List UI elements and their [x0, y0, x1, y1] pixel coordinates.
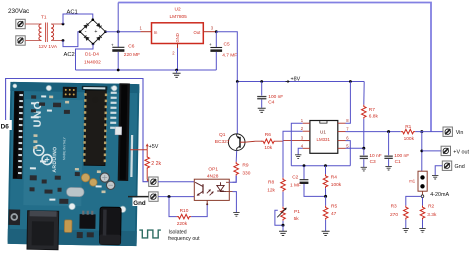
wire pin7 to R1 row — [346, 131, 401, 133]
svg-text:100 nF: 100 nF — [394, 153, 409, 159]
wire U2 output to +8V drop — [216, 32, 237, 82]
node R4/R5/C2 junction — [324, 195, 327, 198]
terminal J2 (230Vac neutral) — [16, 36, 25, 45]
svg-text:100k: 100k — [404, 136, 415, 142]
svg-text:MADE IN ITALY: MADE IN ITALY — [62, 136, 66, 159]
svg-text:-: - — [85, 29, 87, 35]
pin 7 stub — [338, 131, 346, 133]
svg-text:270: 270 — [390, 212, 398, 218]
wire pin5 to timing node — [346, 147, 364, 149]
wire to Vin terminal — [415, 131, 443, 133]
svg-text:Q1: Q1 — [219, 132, 226, 138]
node timing R7/C3 — [362, 147, 365, 150]
capacitor C6 — [111, 32, 124, 70]
resistor 2.2k — [145, 150, 150, 182]
left pin header — [13, 91, 24, 179]
svg-text:LM331: LM331 — [317, 137, 331, 142]
+5V flag — [146, 143, 159, 149]
wire U2 pin2 to ground rail — [177, 48, 179, 70]
right pin header — [118, 83, 130, 181]
ground below P1 — [279, 231, 287, 235]
svg-text:220 MF: 220 MF — [124, 52, 140, 58]
capacitor C5 — [209, 32, 222, 70]
resistor R2 — [420, 206, 425, 229]
ground below R3 — [403, 229, 409, 233]
svg-text:m1: m1 — [409, 178, 415, 183]
svg-text:4-20mA: 4-20mA — [430, 192, 449, 198]
wire riser to top rail — [117, 3, 119, 32]
svg-text:220k: 220k — [177, 221, 188, 227]
USB connector — [27, 211, 59, 250]
svg-text:C5: C5 — [224, 41, 230, 47]
svg-text:R9: R9 — [242, 162, 248, 168]
terminal Gnd (output) — [442, 161, 451, 170]
ground at opto — [233, 213, 239, 217]
bridge rectifier D1-D4 — [79, 18, 107, 45]
wire pin1 to lower rail — [291, 123, 302, 166]
resistor R1 — [401, 129, 416, 134]
potentiometer P1 — [275, 207, 287, 226]
square wave symbol — [139, 230, 161, 238]
svg-text:U2: U2 — [175, 7, 181, 13]
pin 6 stub — [338, 140, 346, 142]
pin 4 stub — [303, 147, 310, 149]
wire lower rail pin1/pin6 — [291, 165, 350, 167]
svg-text:R2: R2 — [428, 204, 434, 210]
terminal input lower (Gnd) — [149, 192, 158, 201]
wire riser to connector — [421, 132, 423, 172]
svg-text:R7: R7 — [369, 107, 375, 113]
svg-text:+5V: +5V — [149, 144, 159, 150]
terminal input upper — [149, 177, 158, 186]
pin 2 stub U2 — [177, 44, 179, 49]
ground below C4 — [258, 108, 266, 112]
svg-text:+: + — [94, 29, 97, 35]
mounting holes — [46, 85, 51, 90]
svg-text:ARDUINO: ARDUINO — [52, 146, 58, 172]
arduino logo — [33, 145, 52, 164]
wire D6 from Arduino to input terminal — [6, 79, 149, 182]
wire pin6 down to lower rail — [346, 141, 351, 166]
pin 1 stub — [303, 122, 310, 124]
node AC2 — [62, 39, 65, 42]
svg-text:R1: R1 — [405, 124, 411, 130]
pin 8 stub — [338, 122, 346, 124]
svg-text:C1: C1 — [395, 159, 401, 165]
wire Arduino 5V to flag — [130, 149, 147, 151]
wire AC2 to bridge left — [63, 32, 80, 47]
svg-text:C3: C3 — [370, 159, 376, 165]
transistor Q1 — [228, 134, 245, 151]
optocoupler OP1 4N28 — [194, 179, 232, 205]
svg-text:BC327: BC327 — [215, 139, 230, 145]
wire +8V rail — [237, 81, 364, 83]
svg-text:+V out: +V out — [453, 149, 469, 155]
svg-text:R4: R4 — [331, 174, 337, 180]
wire lower terminal to opto pin2 — [158, 196, 194, 198]
polyfuse — [64, 220, 72, 233]
ground at U1 pin4 — [295, 155, 301, 159]
wire connector to R2 — [422, 198, 424, 206]
svg-text:47: 47 — [331, 211, 337, 217]
pin 5 stub — [338, 147, 346, 149]
node C6 bottom — [117, 69, 120, 72]
capacitor C1 — [384, 132, 392, 167]
label D6 — [0, 120, 12, 130]
svg-text:1N4002: 1N4002 — [84, 60, 101, 66]
voltage regulator U2 LM7805 — [152, 23, 204, 44]
wire opto base to ground — [233, 192, 237, 213]
pin 1 stub U2 — [141, 31, 152, 33]
svg-text:+: + — [209, 42, 212, 47]
node P1 bottom — [282, 224, 285, 227]
node +8V at Q1 branch — [236, 80, 239, 83]
wire +8V to Q1 collector — [236, 82, 238, 135]
svg-text:5k: 5k — [294, 216, 300, 222]
node U2 output — [215, 30, 218, 33]
wire bridge bottom to ground rail — [76, 44, 94, 70]
resistor R7 — [362, 82, 367, 149]
svg-text:frequency out: frequency out — [168, 236, 200, 242]
voltage regulator — [79, 211, 95, 229]
svg-text:100k: 100k — [331, 182, 342, 188]
ground below R5 — [322, 231, 330, 235]
wire top rail to right column — [118, 3, 431, 132]
node ground rail at U2 — [175, 69, 178, 72]
wire Gnd terminal to ground — [435, 166, 442, 176]
yellow caps — [81, 173, 90, 182]
svg-text:3.3k: 3.3k — [427, 212, 437, 218]
svg-text:C2: C2 — [292, 175, 298, 181]
node R10 branch — [168, 195, 171, 198]
reset button — [8, 209, 20, 225]
silk text top — [82, 86, 108, 90]
node +V out branch — [420, 150, 423, 153]
wire upper terminal to opto pin1 — [158, 181, 194, 183]
pin 3 stub — [303, 140, 310, 142]
svg-text:12V 1VA: 12V 1VA — [39, 44, 58, 50]
svg-text:C6: C6 — [128, 44, 134, 50]
wire to +V out terminal — [422, 150, 441, 152]
node AC1 — [62, 23, 65, 26]
resistor R8 — [281, 178, 286, 207]
wire branch to R3 — [406, 196, 421, 205]
svg-text:6.8k: 6.8k — [369, 114, 379, 120]
barrel jack — [99, 207, 121, 245]
wire pin2 down to R8 — [283, 131, 303, 178]
svg-text:U1: U1 — [320, 129, 326, 134]
white smd resonator — [115, 127, 122, 135]
label Gnd (Arduino) — [133, 198, 149, 207]
wire terminal J1 to T1 primary — [25, 23, 41, 25]
svg-text:+8V: +8V — [291, 77, 301, 83]
node C6 top — [117, 30, 120, 33]
svg-text:Out: Out — [194, 30, 202, 35]
pin 3 stub U2 — [203, 31, 216, 33]
resistor R9 — [233, 151, 239, 183]
ATmega DIP chip — [83, 90, 107, 165]
capacitor C4 — [257, 82, 266, 108]
svg-text:OP1: OP1 — [208, 167, 218, 173]
ICSP headers — [63, 87, 77, 98]
pin 2 stub — [303, 130, 310, 132]
node pin7/C1 — [387, 130, 390, 133]
transformer T1 — [39, 23, 63, 43]
svg-text:D6: D6 — [1, 123, 10, 130]
svg-text:R8: R8 — [268, 179, 274, 185]
svg-text:R5: R5 — [331, 204, 337, 210]
connector m1 4-20mA — [418, 171, 427, 197]
node R1 right — [420, 130, 423, 133]
label +8V — [286, 77, 301, 83]
svg-text:1 MF: 1 MF — [290, 183, 301, 189]
capacitor C3 — [360, 148, 368, 167]
svg-text:2 2k: 2 2k — [151, 161, 161, 167]
capacitor C2 — [300, 166, 326, 197]
svg-text:R3: R3 — [391, 204, 397, 210]
svg-text:GND: GND — [175, 33, 180, 42]
terminal +V out — [441, 146, 450, 155]
wire terminal J2 to T1 primary — [25, 40, 41, 42]
svg-text:R10: R10 — [180, 208, 189, 214]
ground below C3 — [361, 167, 367, 171]
node R4 top — [324, 164, 327, 167]
ground below R2 — [419, 229, 425, 233]
svg-text:AC2: AC2 — [64, 52, 75, 58]
svg-text:Vin: Vin — [456, 130, 464, 136]
svg-text:AC1: AC1 — [67, 10, 78, 16]
svg-text:230Vac: 230Vac — [8, 8, 30, 15]
svg-text:T1: T1 — [41, 15, 47, 21]
svg-text:4.7 MF: 4.7 MF — [222, 52, 237, 58]
svg-text:12k: 12k — [267, 187, 275, 193]
svg-text:R6: R6 — [265, 132, 271, 138]
wire Arduino gnd black — [128, 196, 148, 198]
ground at Gnd terminal — [432, 175, 438, 179]
svg-text:Gnd: Gnd — [455, 164, 465, 170]
electrolytic caps — [100, 173, 109, 182]
resistor R4 — [323, 166, 328, 197]
wire ground rail bottom — [76, 69, 217, 71]
op-amp U1 LM331 — [310, 121, 338, 154]
svg-text:D1-D4: D1-D4 — [85, 52, 99, 58]
svg-text:Gnd: Gnd — [133, 200, 146, 207]
svg-text:+: + — [111, 42, 114, 47]
svg-text:Isolated: Isolated — [169, 229, 187, 235]
svg-text:100 nF: 100 nF — [268, 94, 283, 100]
wire P1 to ground — [282, 225, 284, 231]
terminal Vin — [443, 127, 452, 136]
wire pin8 to +8V rail — [346, 82, 351, 124]
wire pin4 to ground — [298, 148, 302, 154]
resistor R10 loop — [169, 197, 207, 219]
wire AC1 to bridge top — [63, 14, 93, 24]
node +8V at pin8 riser — [349, 80, 352, 83]
node C2 top — [303, 164, 306, 167]
svg-text:LM7805: LM7805 — [170, 14, 188, 20]
resistor R5 — [323, 196, 328, 231]
svg-text:10 nF: 10 nF — [369, 153, 381, 159]
resistor R6 — [245, 139, 310, 144]
wire opto collector to R9 — [229, 176, 236, 183]
ground below U2 — [173, 70, 181, 77]
svg-text:10k: 10k — [264, 145, 272, 151]
svg-text:330: 330 — [242, 170, 250, 176]
ground below C1 — [385, 166, 391, 170]
node +8V at C4 — [260, 80, 263, 83]
Arduino Uno board photo — [8, 81, 140, 251]
terminal J1 (230Vac line) — [16, 19, 25, 28]
svg-text:C4: C4 — [268, 100, 274, 106]
svg-text:4N28: 4N28 — [207, 173, 219, 179]
resistor R3 — [404, 206, 409, 229]
smd bits — [29, 95, 96, 238]
wire bridge right to U2 input — [106, 31, 141, 33]
svg-text:P1: P1 — [294, 209, 300, 215]
crystal — [66, 187, 84, 196]
